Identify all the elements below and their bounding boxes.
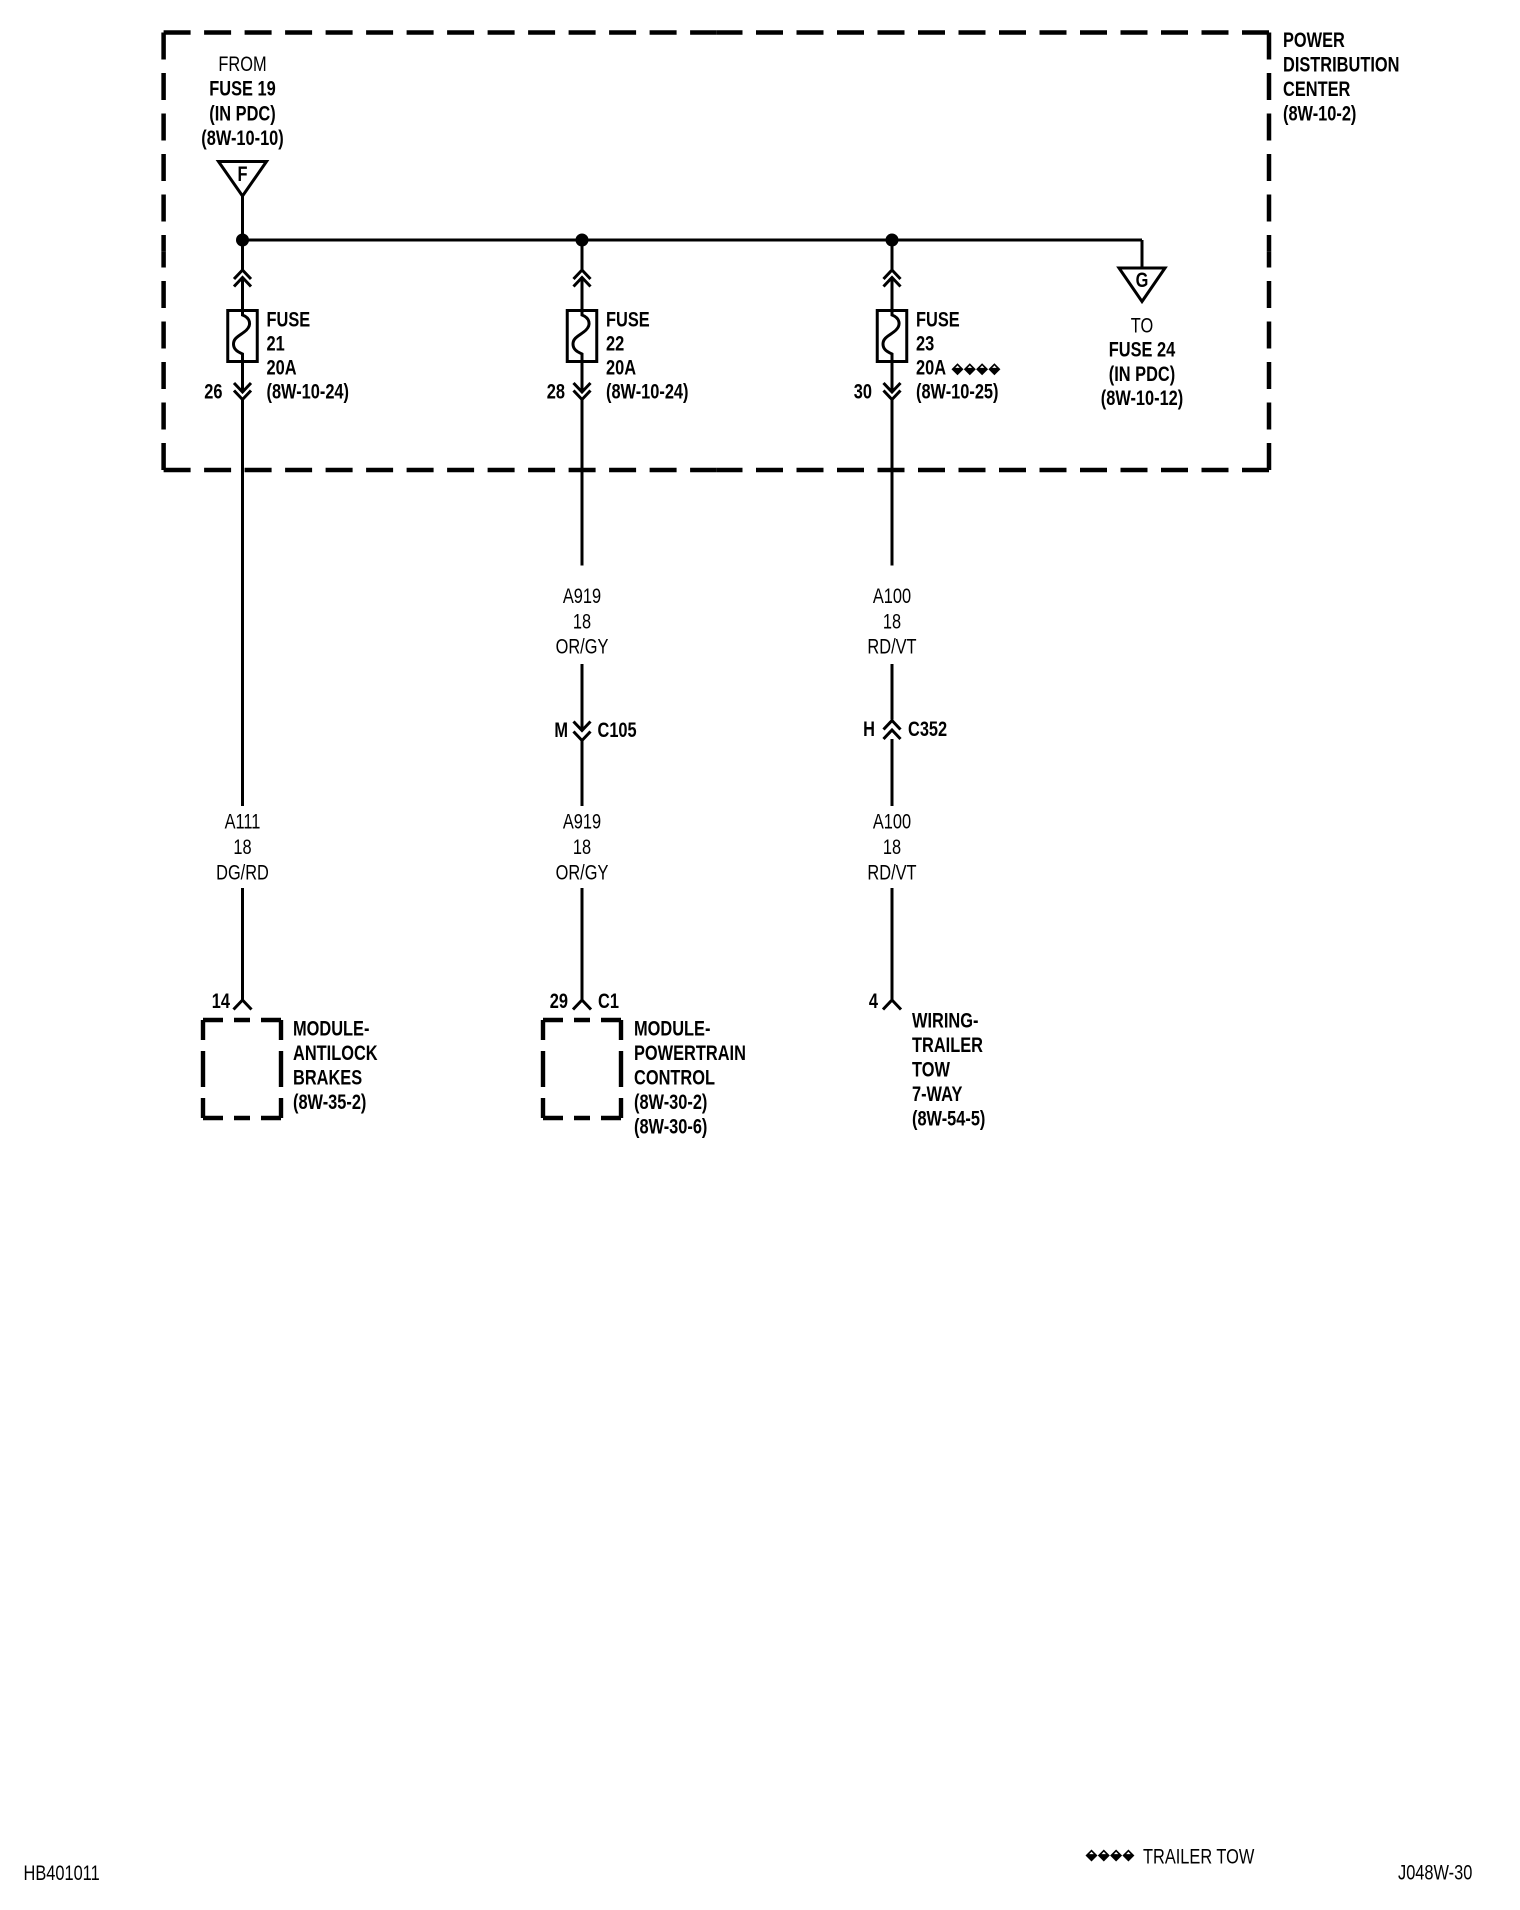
svg-text:FUSE: FUSE xyxy=(606,307,650,330)
svg-text:CENTER: CENTER xyxy=(1283,77,1351,100)
svg-text:F: F xyxy=(237,162,247,185)
svg-text:26: 26 xyxy=(204,379,222,402)
svg-text:18: 18 xyxy=(883,609,901,632)
svg-text:POWER: POWER xyxy=(1283,28,1345,51)
svg-text:FUSE: FUSE xyxy=(916,307,960,330)
svg-text:RD/VT: RD/VT xyxy=(867,861,917,884)
svg-text:A919: A919 xyxy=(563,810,601,833)
svg-text:(IN PDC): (IN PDC) xyxy=(209,101,275,124)
svg-text:TRAILER: TRAILER xyxy=(912,1033,983,1056)
svg-text:18: 18 xyxy=(573,609,591,632)
svg-text:30: 30 xyxy=(854,379,872,402)
svg-text:C352: C352 xyxy=(908,717,947,740)
svg-text:TOW: TOW xyxy=(912,1057,950,1080)
svg-text:28: 28 xyxy=(547,379,565,402)
svg-text:RD/VT: RD/VT xyxy=(867,635,917,658)
svg-text:21: 21 xyxy=(267,331,285,354)
svg-text:ANTILOCK: ANTILOCK xyxy=(293,1041,378,1064)
svg-text:FUSE 19: FUSE 19 xyxy=(209,77,275,100)
svg-text:(8W-10-2): (8W-10-2) xyxy=(1283,102,1356,125)
svg-text:C105: C105 xyxy=(598,718,637,741)
svg-text:A100: A100 xyxy=(873,584,911,607)
svg-text:CONTROL: CONTROL xyxy=(634,1065,715,1088)
svg-text:J048W-30: J048W-30 xyxy=(1398,1861,1472,1884)
svg-text:DG/RD: DG/RD xyxy=(216,861,269,884)
svg-text:TO: TO xyxy=(1131,313,1153,336)
svg-text:TRAILER TOW: TRAILER TOW xyxy=(1143,1845,1255,1868)
svg-text:(IN PDC): (IN PDC) xyxy=(1109,362,1175,385)
svg-text:29: 29 xyxy=(550,989,568,1012)
svg-text:(8W-54-5): (8W-54-5) xyxy=(912,1106,985,1129)
svg-text:OR/GY: OR/GY xyxy=(556,635,609,658)
svg-text:M: M xyxy=(554,718,568,741)
svg-text:(8W-10-24): (8W-10-24) xyxy=(267,379,349,402)
svg-text:(8W-30-6): (8W-30-6) xyxy=(634,1114,707,1137)
svg-text:FUSE: FUSE xyxy=(267,307,311,330)
svg-text:MODULE-: MODULE- xyxy=(293,1016,369,1039)
svg-text:(8W-10-24): (8W-10-24) xyxy=(606,379,688,402)
svg-text:22: 22 xyxy=(606,331,624,354)
svg-text:(8W-10-25): (8W-10-25) xyxy=(916,379,998,402)
svg-text:G: G xyxy=(1136,268,1149,291)
svg-text:7-WAY: 7-WAY xyxy=(912,1082,963,1105)
svg-text:20A: 20A xyxy=(916,355,946,378)
svg-text:HB401011: HB401011 xyxy=(24,1861,100,1884)
svg-text:H: H xyxy=(863,717,875,740)
svg-text:C1: C1 xyxy=(598,989,619,1012)
svg-text:OR/GY: OR/GY xyxy=(556,861,609,884)
svg-text:(8W-10-12): (8W-10-12) xyxy=(1101,386,1183,409)
svg-text:A100: A100 xyxy=(873,810,911,833)
svg-text:DISTRIBUTION: DISTRIBUTION xyxy=(1283,52,1399,75)
svg-text:14: 14 xyxy=(212,989,231,1012)
svg-text:(8W-30-2): (8W-30-2) xyxy=(634,1090,707,1113)
svg-text:A919: A919 xyxy=(563,584,601,607)
svg-text:BRAKES: BRAKES xyxy=(293,1065,362,1088)
svg-text:POWERTRAIN: POWERTRAIN xyxy=(634,1041,746,1064)
svg-text:18: 18 xyxy=(233,835,251,858)
svg-text:23: 23 xyxy=(916,331,934,354)
svg-text:(8W-35-2): (8W-35-2) xyxy=(293,1090,366,1113)
svg-text:MODULE-: MODULE- xyxy=(634,1016,710,1039)
svg-text:FROM: FROM xyxy=(218,52,266,75)
svg-text:18: 18 xyxy=(573,835,591,858)
svg-text:WIRING-: WIRING- xyxy=(912,1008,978,1031)
svg-text:4: 4 xyxy=(869,989,879,1012)
svg-text:20A: 20A xyxy=(606,355,636,378)
svg-text:FUSE 24: FUSE 24 xyxy=(1109,338,1176,361)
svg-text:A111: A111 xyxy=(225,810,261,833)
svg-text:18: 18 xyxy=(883,835,901,858)
svg-text:20A: 20A xyxy=(267,355,297,378)
svg-text:(8W-10-10): (8W-10-10) xyxy=(201,126,283,149)
